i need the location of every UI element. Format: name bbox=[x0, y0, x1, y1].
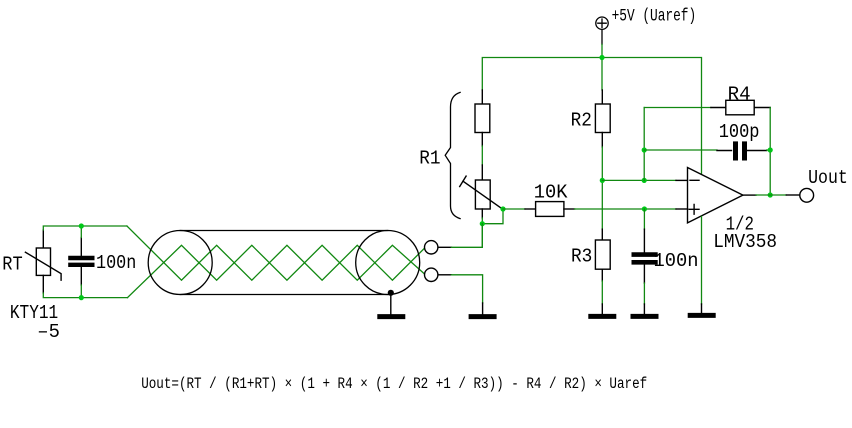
wire op-amp V- to ground bbox=[701, 217, 703, 305]
wire R2 to R3 bbox=[601, 147, 603, 229]
node junction output bbox=[768, 192, 773, 197]
ground R3 bbox=[591, 304, 614, 316]
node junction wiper bbox=[500, 206, 505, 211]
wire trimmer bottom to sensor node bbox=[481, 218, 483, 247]
svg-text:Uout: Uout bbox=[808, 167, 848, 189]
ground shield bbox=[380, 314, 403, 319]
resistor R4 bbox=[711, 100, 770, 115]
wire twisted pair B bbox=[128, 245, 425, 297]
wire wiper L-link bbox=[482, 209, 503, 224]
wire output bbox=[756, 194, 786, 196]
pad connector bottom bbox=[425, 268, 438, 281]
node junction minus-input bbox=[600, 178, 605, 183]
wire minus input bbox=[602, 179, 676, 181]
wire 10K to plus input bbox=[575, 208, 676, 210]
wire cap links bbox=[80, 226, 82, 298]
wire connector top to trimmer node bbox=[451, 224, 482, 248]
node junction 100p left bbox=[642, 147, 647, 152]
svg-text:RT: RT bbox=[2, 254, 22, 276]
resistor 10K bbox=[525, 202, 575, 217]
op-amp U1 LMV358 bbox=[676, 168, 756, 223]
node junction cap bottom bbox=[79, 295, 84, 300]
svg-text:+5V (Uaref): +5V (Uaref) bbox=[612, 7, 697, 27]
resistor R2 bbox=[595, 90, 610, 147]
wire plus input cap tee down bbox=[643, 209, 645, 229]
wire 100n cap to ground bbox=[643, 283, 645, 304]
node junction 100p right bbox=[768, 147, 773, 152]
trimmer R1 lower half bbox=[460, 165, 503, 218]
node junction plus-input tee bbox=[642, 206, 647, 211]
sensor RT KTY11-5 bbox=[25, 230, 61, 293]
svg-text:100n: 100n bbox=[654, 250, 699, 272]
svg-text:LMV358: LMV358 bbox=[713, 231, 777, 253]
wire +5V rail bbox=[482, 44, 701, 173]
svg-text:R2: R2 bbox=[571, 109, 592, 131]
wire feedback vertical upper bbox=[643, 108, 645, 181]
resistor R3 bbox=[595, 229, 610, 281]
wire connector bottom to ground bbox=[451, 275, 482, 303]
resistor R1 fixed half bbox=[475, 90, 490, 146]
pad Uout bbox=[800, 188, 814, 202]
node shield ground dot bbox=[388, 290, 394, 296]
capacitor 100p bbox=[717, 144, 767, 158]
power +5V supply symbol bbox=[596, 17, 608, 44]
svg-text:100p: 100p bbox=[719, 121, 760, 143]
wire wiper to 10K bbox=[503, 208, 525, 210]
svg-text:100n: 100n bbox=[96, 252, 136, 274]
wire 100p right to output vertical bbox=[767, 108, 771, 196]
ground connector bbox=[471, 303, 494, 317]
cable shield outline bbox=[148, 231, 420, 295]
capacitor 100n right bbox=[634, 229, 656, 283]
pin connector bottom bbox=[438, 274, 451, 276]
node junction trimmer bottom bbox=[480, 221, 485, 226]
svg-text:R4: R4 bbox=[728, 84, 751, 106]
wire R3 to ground bbox=[601, 281, 603, 304]
svg-text:–5: –5 bbox=[37, 321, 60, 343]
svg-text:R1: R1 bbox=[419, 148, 440, 170]
node junction feedback tee bbox=[642, 178, 647, 183]
svg-text:R3: R3 bbox=[571, 246, 592, 268]
ground 100n bbox=[633, 304, 656, 316]
pin output to pad bbox=[786, 194, 799, 196]
capacitor 100n left bbox=[70, 238, 92, 286]
wire 100p horizontal bbox=[644, 149, 717, 151]
ground op-amp bbox=[690, 304, 713, 315]
pin connector top bbox=[438, 246, 451, 248]
wire sensor top bbox=[43, 226, 127, 230]
wire R4 top horizontal bbox=[644, 107, 711, 109]
node junction on rail bbox=[599, 55, 604, 60]
pad connector top bbox=[425, 241, 438, 254]
wire between R1 halves bbox=[481, 146, 483, 165]
svg-text:10K: 10K bbox=[534, 182, 568, 204]
brace R1 bbox=[445, 92, 460, 218]
wire twisted pair A bbox=[127, 226, 425, 280]
svg-text:Uout=(RT / (R1+RT) × (1 + R4 ×: Uout=(RT / (R1+RT) × (1 + R4 × (1 / R2 +… bbox=[141, 375, 647, 393]
wire shield to ground bbox=[390, 293, 392, 314]
node junction cap top bbox=[79, 223, 84, 228]
wire sensor bottom bbox=[43, 293, 127, 298]
